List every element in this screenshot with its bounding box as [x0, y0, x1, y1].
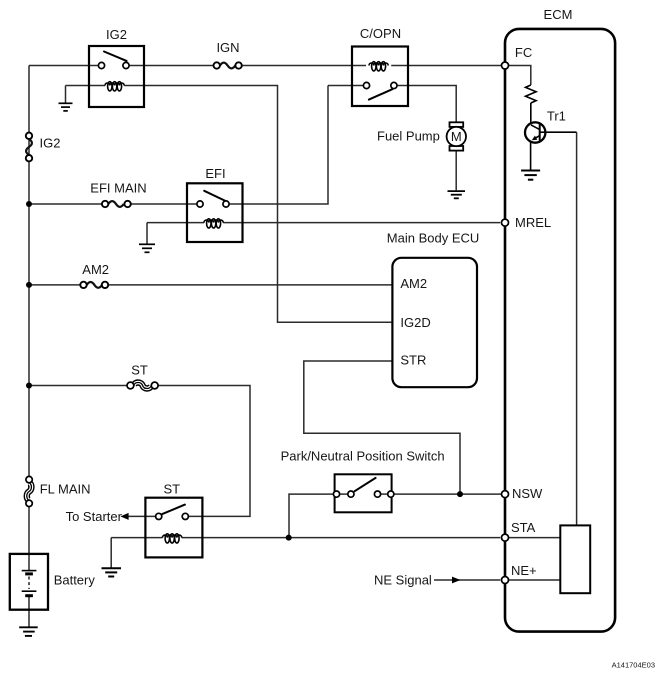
svg-text:MREL: MREL [515, 215, 551, 230]
svg-text:IGN: IGN [216, 40, 239, 55]
svg-text:Tr1: Tr1 [547, 109, 566, 124]
svg-text:FL MAIN: FL MAIN [40, 482, 91, 497]
svg-text:ECM: ECM [544, 7, 573, 22]
svg-text:STA: STA [511, 520, 536, 535]
svg-text:Fuel Pump: Fuel Pump [377, 129, 440, 144]
svg-text:ST: ST [131, 363, 148, 378]
svg-text:EFI: EFI [205, 166, 225, 181]
svg-text:Battery: Battery [54, 573, 96, 588]
svg-text:Park/Neutral Position Switch: Park/Neutral Position Switch [281, 449, 445, 464]
svg-text:A141704E03: A141704E03 [612, 661, 655, 670]
svg-text:STR: STR [400, 353, 426, 368]
svg-text:AM2: AM2 [82, 262, 109, 277]
svg-text:IG2: IG2 [106, 27, 127, 42]
svg-text:Main Body ECU: Main Body ECU [387, 231, 479, 246]
svg-text:IG2D: IG2D [400, 315, 430, 330]
svg-text:NE+: NE+ [511, 563, 537, 578]
svg-text:NSW: NSW [512, 486, 543, 501]
svg-text:NE Signal: NE Signal [374, 573, 432, 588]
svg-text:IG2: IG2 [40, 136, 61, 151]
svg-text:To Starter: To Starter [66, 509, 123, 524]
svg-text:ST: ST [163, 482, 180, 497]
svg-text:FC: FC [515, 45, 532, 60]
svg-text:EFI MAIN: EFI MAIN [90, 181, 146, 196]
svg-text:M: M [451, 129, 462, 144]
svg-text:AM2: AM2 [400, 276, 427, 291]
svg-text:C/OPN: C/OPN [360, 26, 401, 41]
